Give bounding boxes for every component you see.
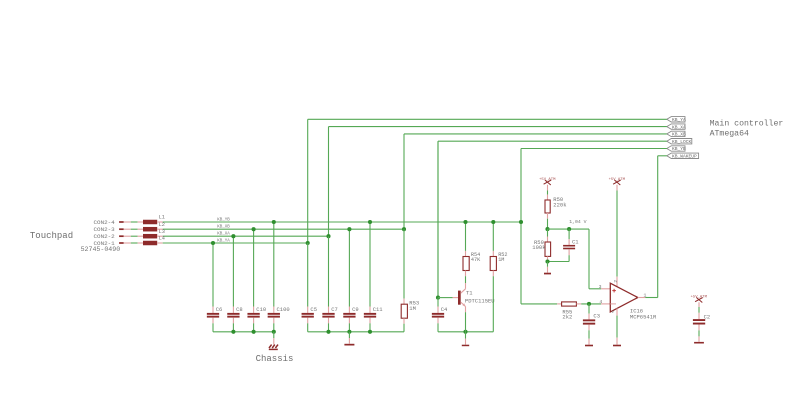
svg-text:KB_XB: KB_XB [672,132,686,138]
svg-text:3: 3 [599,284,602,290]
svg-text:+5V_ATM: +5V_ATM [539,178,556,182]
svg-text:C10: C10 [256,306,266,313]
svg-text:C9: C9 [352,306,359,313]
svg-text:T1: T1 [466,290,473,297]
svg-text:V: V [612,311,615,315]
svg-text:+5V_ATM: +5V_ATM [609,178,626,182]
svg-text:KB_LOCK: KB_LOCK [672,139,692,145]
svg-text:1,04 V: 1,04 V [569,219,586,225]
svg-text:L2: L2 [159,222,165,228]
svg-text:L3: L3 [159,229,165,235]
svg-text:100k: 100k [532,244,546,251]
svg-text:KB_YA: KB_YA [217,239,230,243]
svg-text:MCP6541R: MCP6541R [630,314,657,321]
svg-text:KB_WAKEUP: KB_WAKEUP [672,154,697,160]
svg-text:CON2-3: CON2-3 [94,226,116,233]
svg-text:C5: C5 [310,306,317,313]
svg-text:C11: C11 [373,306,384,313]
svg-text:C100: C100 [277,306,290,313]
svg-text:C7: C7 [331,306,338,313]
svg-text:KB_YB: KB_YB [217,218,230,222]
svg-text:C1: C1 [572,238,579,245]
svg-text:+5V_ATM: +5V_ATM [691,296,708,300]
svg-text:47K: 47K [471,257,481,263]
svg-text:KB_YA: KB_YA [672,117,686,123]
svg-text:L1: L1 [159,215,165,221]
svg-text:Touchpad: Touchpad [30,231,73,241]
svg-text:1: 1 [644,292,647,298]
svg-text:KB_XA: KB_XA [217,233,230,237]
svg-text:KB_YB: KB_YB [672,146,686,152]
svg-text:2k2: 2k2 [562,314,572,321]
svg-text:KB_XA: KB_XA [672,124,686,130]
svg-text:C2: C2 [704,313,711,320]
svg-text:4: 4 [599,299,602,305]
svg-text:Chassis: Chassis [256,354,294,364]
svg-text:C3: C3 [593,313,600,320]
svg-text:2: 2 [613,280,619,283]
svg-text:L4: L4 [159,236,165,242]
svg-text:C4: C4 [441,306,448,313]
svg-text:PDTC115EU: PDTC115EU [465,297,495,304]
svg-text:KB_XB: KB_XB [217,226,230,230]
svg-text:1M: 1M [498,257,504,263]
svg-text:220k: 220k [553,201,567,208]
svg-text:1M: 1M [409,305,416,312]
svg-text:C6: C6 [216,306,223,313]
svg-text:C8: C8 [236,306,243,313]
svg-text:ATmega64: ATmega64 [710,130,749,139]
svg-text:52745-0490: 52745-0490 [81,246,121,253]
svg-text:CON2-4: CON2-4 [94,219,116,226]
svg-text:Main controller: Main controller [710,119,784,129]
